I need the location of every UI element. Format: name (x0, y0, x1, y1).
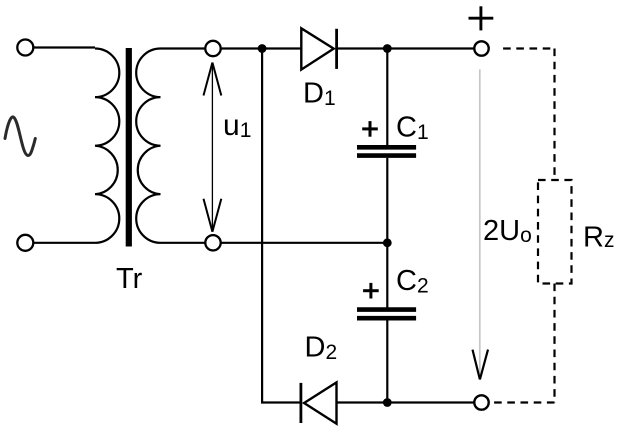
wire top rail secondary terminal to D1 (222, 47, 302, 49)
node junction dot top of C1 (383, 44, 392, 53)
AC source sine symbol (5, 117, 35, 156)
capacitor C1 plates (357, 147, 416, 155)
voltage arrow 2Uo gray shaft (479, 69, 481, 378)
wire bottom rail D2 to terminal (337, 401, 474, 403)
diode D2 (299, 383, 302, 423)
node junction dot D2 branch (258, 44, 267, 53)
svg-text:u1: u1 (223, 109, 251, 142)
node junction dot mid rail (383, 238, 392, 247)
terminal secondary top (205, 41, 220, 56)
capacitor C2 plates (357, 310, 416, 319)
wire C1 vertical upper (386, 49, 388, 146)
terminal primary top (17, 40, 33, 56)
wire mid rail (222, 242, 388, 244)
transformer core (126, 48, 132, 247)
resistor Rz dashed box (538, 180, 572, 284)
terminal output plus (474, 41, 488, 55)
wire C2 vertical upper (386, 243, 388, 308)
svg-text:2Uo: 2Uo (483, 215, 532, 247)
wire D2 branch vertical (262, 49, 301, 403)
voltage arrow u1 (211, 63, 213, 232)
plus sign output polarity (469, 6, 494, 30)
terminal primary bottom (17, 235, 33, 251)
svg-text:D2: D2 (305, 332, 338, 365)
wire D1 to C1 junction (337, 47, 388, 49)
wire secondary bottom (161, 242, 205, 244)
svg-text:Tr: Tr (116, 263, 143, 295)
wire primary bottom (34, 242, 96, 244)
dashed wire + terminal to load top (498, 49, 555, 181)
svg-text:C2: C2 (396, 265, 429, 298)
transformer Tr secondary winding (136, 49, 160, 243)
wire junction to output + terminal (387, 47, 473, 49)
wire primary top (34, 46, 96, 48)
terminal output minus (474, 395, 488, 409)
svg-text:C1: C1 (396, 112, 429, 145)
diode D1 (301, 28, 333, 69)
voltage arrow 2Uo arrowhead (473, 350, 489, 380)
terminal secondary bottom (205, 235, 220, 250)
svg-text:D1: D1 (303, 78, 336, 111)
node junction dot bottom rail (383, 398, 392, 407)
capacitor C2 plus polarity (363, 283, 379, 299)
wire C1 to mid rail (386, 158, 388, 243)
svg-text:Rz: Rz (583, 222, 614, 254)
wire secondary top (161, 47, 205, 49)
wire C2 to bottom rail (386, 321, 388, 403)
transformer Tr primary winding (95, 49, 119, 243)
dashed wire load bottom to minus terminal (491, 284, 555, 403)
capacitor C1 plus polarity (362, 121, 378, 137)
